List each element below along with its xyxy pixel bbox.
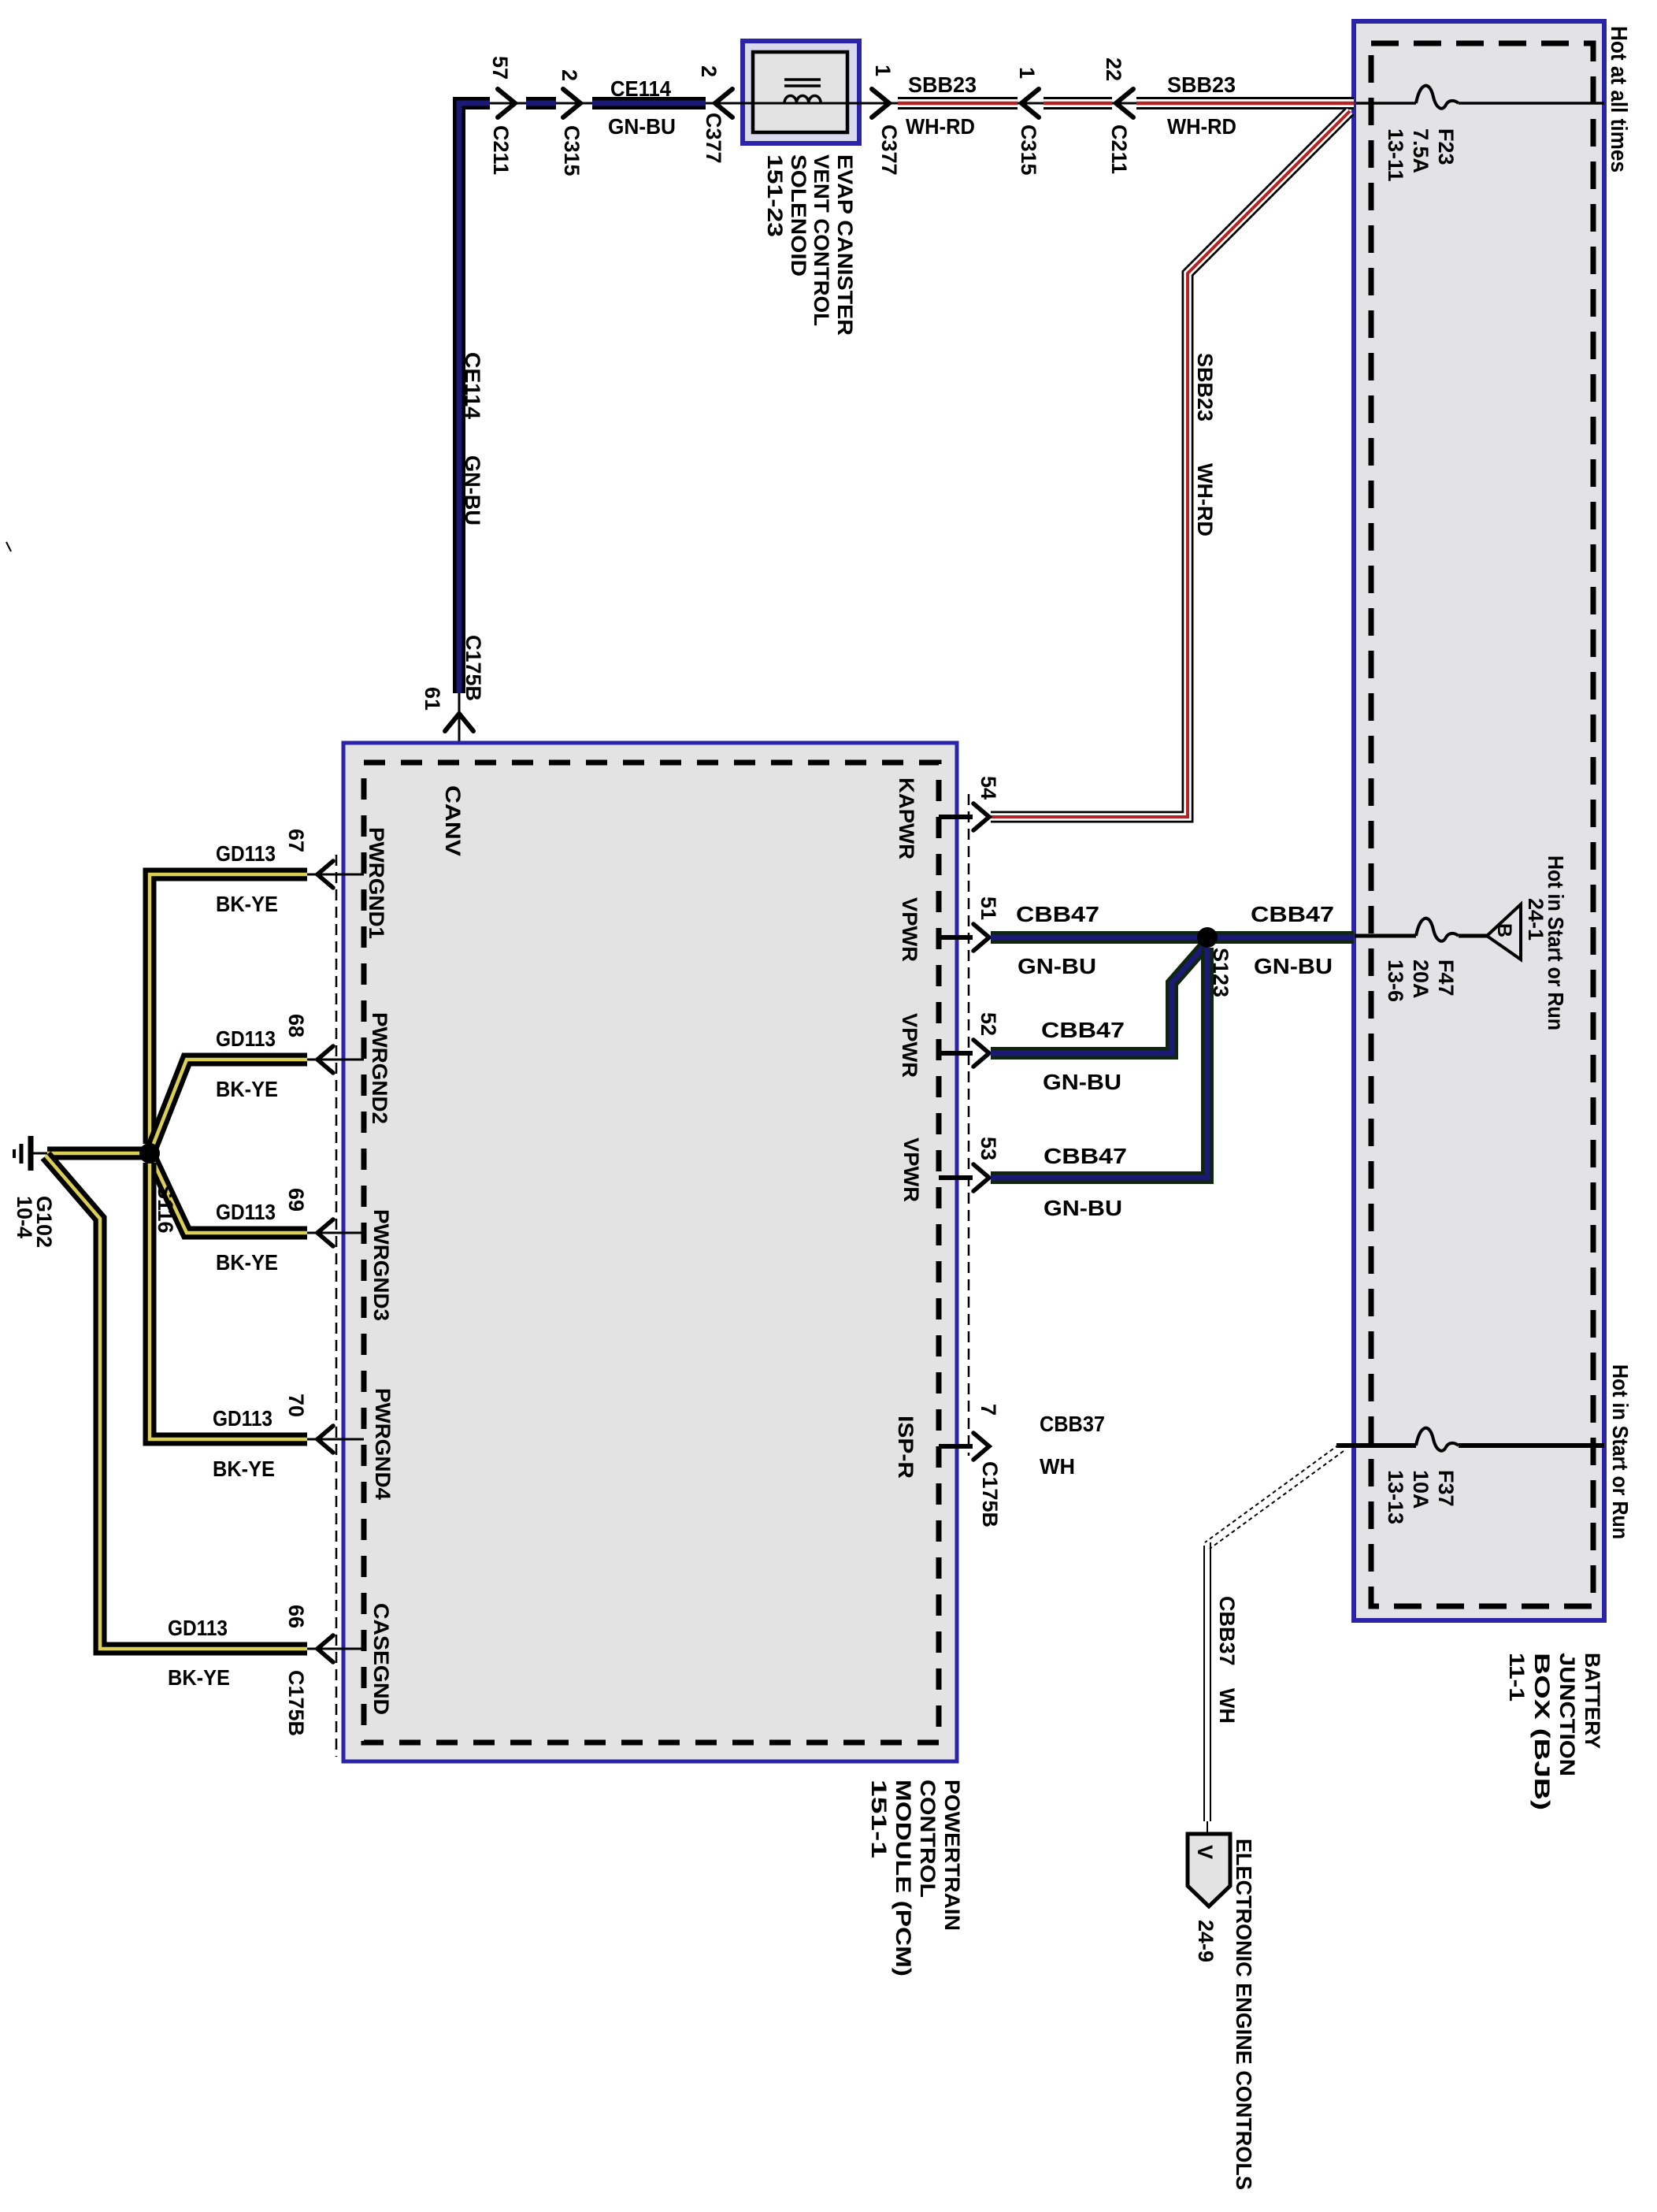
svg-text:68: 68	[284, 1014, 308, 1037]
svg-text:20A: 20A	[1409, 959, 1433, 999]
svg-text:GN-BU: GN-BU	[461, 455, 484, 525]
svg-text:PWRGND1: PWRGND1	[365, 827, 388, 939]
svg-text:10A: 10A	[1409, 1470, 1433, 1509]
svg-text:MODULE (PCM): MODULE (PCM)	[892, 1780, 915, 1976]
svg-text:CBB47: CBB47	[1016, 902, 1099, 926]
svg-text:C211: C211	[1107, 124, 1131, 174]
svg-text:WH-RD: WH-RD	[1193, 463, 1217, 536]
svg-text:61: 61	[421, 687, 444, 711]
svg-text:C175B: C175B	[978, 1461, 1002, 1527]
svg-text:F37: F37	[1434, 1470, 1458, 1507]
svg-text:Hot in Start or Run: Hot in Start or Run	[1544, 855, 1568, 1030]
svg-text:SBB23: SBB23	[908, 72, 977, 97]
svg-text:PWRGND3: PWRGND3	[369, 1209, 393, 1321]
svg-text:24-9: 24-9	[1194, 1920, 1218, 1962]
svg-text:C175B: C175B	[284, 1670, 308, 1736]
svg-text:54: 54	[977, 776, 1000, 800]
svg-text:151-23: 151-23	[763, 154, 787, 237]
svg-text:POWERTRAIN: POWERTRAIN	[940, 1780, 964, 1931]
svg-text:F47: F47	[1434, 959, 1458, 997]
svg-text:BATTERY: BATTERY	[1581, 1653, 1604, 1749]
svg-text:PWRGND2: PWRGND2	[368, 1012, 391, 1124]
svg-text:70: 70	[284, 1394, 308, 1417]
svg-text:C211: C211	[489, 125, 513, 175]
svg-text:BK-YE: BK-YE	[213, 1457, 275, 1481]
svg-text:Hot at all times: Hot at all times	[1606, 26, 1631, 173]
svg-text:SBB23: SBB23	[1167, 72, 1236, 97]
svg-text:11-1: 11-1	[1505, 1653, 1529, 1702]
svg-text:CE114: CE114	[610, 76, 671, 101]
svg-text:2: 2	[558, 69, 581, 81]
svg-text:CBB47: CBB47	[1251, 902, 1334, 926]
svg-text:B: B	[1493, 923, 1515, 937]
svg-text:CANV: CANV	[441, 785, 465, 856]
svg-text:V: V	[1193, 1845, 1217, 1859]
svg-text:WH-RD: WH-RD	[1167, 114, 1236, 139]
svg-text:51: 51	[977, 896, 1000, 920]
svg-text:C377: C377	[877, 124, 901, 176]
svg-text:7: 7	[977, 1404, 1000, 1416]
svg-text:66: 66	[284, 1605, 308, 1628]
svg-text:CBB37: CBB37	[1215, 1596, 1239, 1666]
svg-text:BK-YE: BK-YE	[216, 1077, 278, 1101]
svg-text:C315: C315	[1017, 124, 1040, 176]
svg-text:VPWR: VPWR	[898, 897, 921, 962]
svg-text:7.5A: 7.5A	[1409, 128, 1433, 173]
svg-text:WH: WH	[1040, 1454, 1075, 1479]
svg-text:C315: C315	[560, 125, 584, 176]
svg-text:S116: S116	[154, 1185, 177, 1234]
svg-text:SOLENOID: SOLENOID	[787, 154, 810, 276]
svg-text:GD113: GD113	[216, 1026, 276, 1051]
svg-text:GD113: GD113	[216, 1200, 276, 1224]
svg-text:WH: WH	[1215, 1688, 1239, 1724]
svg-text:GN-BU: GN-BU	[1043, 1070, 1121, 1094]
svg-text:57: 57	[488, 56, 512, 80]
svg-text:GD113: GD113	[213, 1406, 272, 1431]
svg-text:C175B: C175B	[462, 635, 485, 701]
svg-text:151-1: 151-1	[867, 1780, 891, 1858]
svg-text:1: 1	[871, 65, 895, 76]
svg-text:BK-YE: BK-YE	[216, 1250, 278, 1275]
svg-text:Hot in Start or Run: Hot in Start or Run	[1608, 1364, 1633, 1539]
svg-text:C377: C377	[702, 113, 725, 164]
svg-text:CONTROL: CONTROL	[916, 1780, 940, 1898]
svg-text:S123: S123	[1209, 948, 1233, 997]
svg-text:EVAP CANISTER: EVAP CANISTER	[833, 154, 857, 336]
svg-text:13-13: 13-13	[1384, 1470, 1407, 1524]
svg-text:ELECTRONIC ENGINE CONTROLS: ELECTRONIC ENGINE CONTROLS	[1232, 1839, 1256, 2190]
svg-text:BK-YE: BK-YE	[216, 892, 278, 916]
svg-text:VPWR: VPWR	[898, 1013, 921, 1078]
svg-text:CBB47: CBB47	[1044, 1144, 1127, 1168]
svg-text:52: 52	[977, 1012, 1000, 1036]
svg-text:VPWR: VPWR	[899, 1138, 923, 1202]
svg-text:F23: F23	[1434, 128, 1458, 165]
svg-text:VENT CONTROL: VENT CONTROL	[810, 154, 833, 326]
svg-text:53: 53	[977, 1137, 1000, 1160]
svg-text:PWRGND4: PWRGND4	[371, 1388, 395, 1500]
svg-text:CBB37: CBB37	[1040, 1412, 1105, 1436]
svg-text:GN-BU: GN-BU	[1018, 954, 1096, 978]
svg-text:22: 22	[1102, 58, 1125, 81]
svg-text:69: 69	[284, 1188, 308, 1212]
svg-text:13-6: 13-6	[1384, 959, 1407, 1002]
svg-text:CBB47: CBB47	[1041, 1018, 1125, 1042]
svg-text:2: 2	[697, 65, 721, 77]
svg-text:KAPWR: KAPWR	[895, 778, 918, 859]
svg-text:WH-RD: WH-RD	[906, 114, 975, 139]
svg-text:1: 1	[1015, 67, 1039, 79]
svg-text:GD113: GD113	[216, 841, 276, 866]
svg-text:SBB23: SBB23	[1193, 353, 1217, 421]
svg-text:10-4: 10-4	[13, 1196, 36, 1238]
svg-text:13-11: 13-11	[1384, 128, 1407, 182]
svg-text:67: 67	[284, 829, 308, 852]
svg-text:ISP-R: ISP-R	[894, 1416, 917, 1479]
svg-text:CASEGND: CASEGND	[369, 1603, 393, 1715]
svg-text:BK-YE: BK-YE	[168, 1665, 230, 1690]
svg-text:CE114: CE114	[461, 352, 484, 419]
svg-text:BOX (BJB): BOX (BJB)	[1530, 1653, 1554, 1810]
svg-text:GN-BU: GN-BU	[1044, 1196, 1122, 1220]
svg-text:JUNCTION: JUNCTION	[1555, 1653, 1579, 1776]
svg-text:GN-BU: GN-BU	[1254, 954, 1333, 978]
svg-text:GN-BU: GN-BU	[608, 114, 676, 139]
svg-text:GD113: GD113	[168, 1616, 228, 1640]
